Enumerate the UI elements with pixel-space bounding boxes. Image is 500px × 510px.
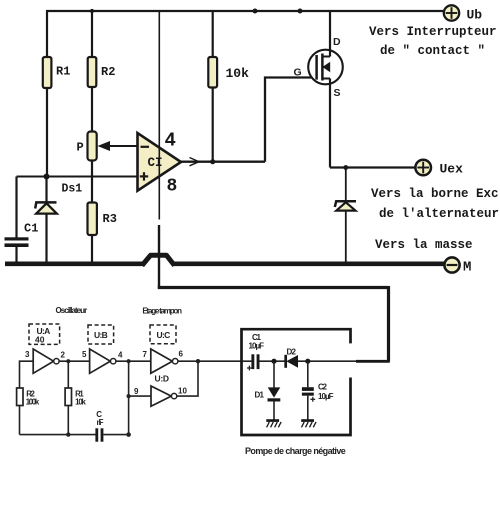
- wire 10k bottom: [212, 88, 214, 162]
- plus mark C1: [247, 366, 252, 371]
- wire source: [329, 79, 331, 168]
- node dot R1-bottom: [66, 432, 70, 436]
- wire 10k column top: [212, 11, 214, 58]
- svg-text:4: 4: [165, 130, 176, 152]
- svg-text:de " contact ": de " contact ": [380, 44, 485, 58]
- capacitor C1 pump: [251, 354, 259, 369]
- wire R3 to ground rail: [91, 235, 93, 263]
- diode D2: [286, 355, 298, 368]
- svg-text:D: D: [333, 36, 341, 48]
- svg-text:CI: CI: [148, 156, 163, 170]
- wire drain: [329, 11, 331, 57]
- wire C1 to D2 node: [260, 360, 286, 362]
- svg-text:Vers Interrupteur: Vers Interrupteur: [369, 25, 497, 39]
- node dot A-B: [66, 359, 70, 363]
- svg-text:R3: R3: [103, 212, 117, 226]
- svg-text:2: 2: [61, 351, 66, 360]
- potentiometer P: [88, 132, 97, 161]
- inverter U:A: [33, 349, 59, 373]
- node dot on rail: [298, 9, 303, 14]
- wire feedback into pump: [356, 360, 390, 363]
- node junction dot: [44, 174, 50, 180]
- svg-text:D1: D1: [255, 391, 265, 400]
- svg-text:8: 8: [167, 177, 178, 197]
- svg-text:C1: C1: [24, 222, 38, 236]
- wire pot to R3: [91, 161, 93, 204]
- svg-text:D2: D2: [287, 348, 297, 357]
- svg-text:M: M: [463, 260, 471, 276]
- svg-text:U:B: U:B: [94, 330, 108, 340]
- svg-text:U:C: U:C: [157, 330, 171, 340]
- svg-text:40: 40: [35, 335, 45, 345]
- wire hump crossover: [142, 255, 175, 265]
- op-amp plus sign: [140, 172, 148, 180]
- output arrow: [190, 158, 200, 166]
- node dot 10k-output: [210, 159, 215, 164]
- svg-text:Vers la borne Exc: Vers la borne Exc: [371, 187, 499, 201]
- svg-text:P: P: [77, 141, 84, 155]
- wire op-amp pin 8 lower vertical: [158, 225, 160, 288]
- svg-text:3: 3: [25, 350, 30, 359]
- wire feedback thick vertical: [387, 286, 390, 361]
- wire R1 column top: [46, 11, 48, 58]
- inverter U:C: [151, 349, 178, 373]
- svg-text:10: 10: [178, 387, 187, 396]
- svg-text:de l'alternateur: de l'alternateur: [379, 207, 499, 221]
- transistor Q1 MOSFET: [308, 50, 343, 85]
- svg-text:10k: 10k: [75, 398, 86, 407]
- node dot B-C: [127, 359, 131, 363]
- svg-text:Etage tampon: Etage tampon: [142, 307, 182, 316]
- svg-text:Ub: Ub: [467, 8, 483, 23]
- IC box U:C dashed: [150, 325, 176, 344]
- svg-text:Uex: Uex: [440, 162, 464, 177]
- ground rail (thick): [5, 261, 143, 266]
- svg-text:100k: 100k: [26, 398, 40, 407]
- wire D input: [129, 395, 151, 397]
- wire R1 osc bottom: [67, 406, 69, 435]
- node dot D rejoin: [196, 359, 200, 363]
- wire riser vertical: [128, 361, 130, 434]
- capacitor C2: [302, 361, 314, 419]
- wire source to Uex: [330, 166, 415, 168]
- wire D2 to C2 node: [298, 360, 356, 362]
- resistor R2 osc: [17, 388, 23, 406]
- wire gate A input: [20, 361, 34, 388]
- node dot on rail: [253, 9, 258, 14]
- svg-text:4: 4: [118, 351, 123, 360]
- node dot riser corner: [126, 432, 131, 437]
- wire A out to B in: [59, 360, 90, 362]
- terminal Ub: [444, 5, 459, 20]
- wire R2 to pot: [91, 87, 93, 132]
- svg-text:G: G: [294, 67, 302, 79]
- wire R2 column top: [91, 11, 93, 58]
- svg-text:Oscillateur: Oscillateur: [56, 306, 88, 315]
- svg-text:5: 5: [82, 350, 87, 359]
- wire op-amp output: [181, 161, 265, 163]
- svg-text:6: 6: [179, 350, 184, 359]
- svg-text:7: 7: [143, 350, 148, 359]
- svg-text:Pompe de charge négative: Pompe de charge négative: [245, 446, 346, 456]
- IC box U:B dashed: [88, 325, 114, 344]
- svg-text:C1: C1: [252, 333, 262, 342]
- inverter U:D: [151, 386, 177, 406]
- svg-text:10µF: 10µF: [249, 342, 265, 351]
- node dot D input tee: [127, 394, 131, 398]
- wire feedback thick horizontal: [158, 286, 389, 289]
- wire R2 bottom: [19, 406, 21, 435]
- ground symbol D1: [266, 419, 281, 427]
- wiper arrowhead: [98, 141, 111, 151]
- plus mark C2: [310, 397, 315, 402]
- resistor R1: [43, 57, 52, 88]
- svg-text:R1: R1: [56, 65, 70, 79]
- resistor R1 osc: [65, 388, 71, 406]
- node dot C2 tee: [305, 359, 310, 364]
- wire wiper to op-amp minus: [104, 145, 138, 147]
- op-amp minus sign: [141, 146, 150, 148]
- wire noninverting input: [17, 176, 138, 178]
- ground symbol C2: [301, 419, 316, 427]
- wire left column to C1: [15, 177, 17, 239]
- wire D output riser: [177, 361, 198, 396]
- resistor R2: [88, 57, 97, 87]
- svg-text:R2: R2: [101, 65, 115, 79]
- inverter U:B: [90, 349, 116, 373]
- diode D3 freewheel: [335, 168, 356, 263]
- svg-text:Ds1: Ds1: [62, 183, 83, 196]
- wire C out to pump: [178, 360, 252, 362]
- pump box outline: [242, 329, 351, 435]
- svg-text:C2: C2: [318, 383, 328, 392]
- wire gate riser: [265, 78, 317, 162]
- resistor R3: [88, 203, 97, 236]
- wire B out to C in: [116, 360, 151, 362]
- zener Ds1: [35, 177, 57, 264]
- node dot source-diode: [343, 165, 348, 170]
- svg-text:10µF: 10µF: [318, 392, 334, 401]
- wire R1 bottom: [46, 88, 48, 177]
- svg-text:9: 9: [134, 387, 139, 396]
- diode D1: [268, 361, 281, 419]
- svg-text:U:D: U:D: [155, 374, 170, 384]
- wire bottom feedback: [20, 434, 97, 436]
- wire top rail: [46, 10, 444, 12]
- terminal Uex: [415, 160, 431, 176]
- node dot D1 tee: [271, 359, 276, 364]
- wire C to riser: [103, 434, 128, 436]
- wire R1 osc top: [67, 361, 69, 388]
- capacitor C1: [5, 237, 29, 262]
- node dot on rail at R2: [90, 9, 94, 13]
- svg-text:Vers la masse: Vers la masse: [375, 238, 473, 252]
- IC box U:A dashed: [29, 324, 60, 344]
- svg-text:10k: 10k: [226, 66, 250, 81]
- ground rail right part: [174, 261, 445, 266]
- resistor 10k: [208, 57, 217, 88]
- svg-text:S: S: [334, 87, 341, 99]
- op-amp U1 CI: [138, 133, 182, 191]
- terminal M: [444, 257, 459, 272]
- capacitor C osc: [95, 428, 103, 441]
- svg-text:nF: nF: [97, 418, 104, 427]
- wire op-amp power pin 4 vertical: [158, 11, 160, 220]
